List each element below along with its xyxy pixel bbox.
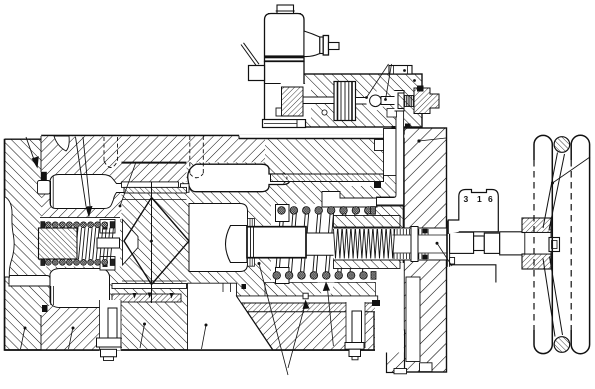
thread teeth	[334, 229, 395, 259]
cone centerline	[151, 182, 153, 303]
top fitting on pilot block	[389, 66, 412, 75]
bracket lower plate	[450, 265, 496, 283]
leader dots bottom-left	[24, 327, 27, 330]
black seal below pilot block	[405, 124, 411, 129]
bore step channel	[384, 129, 397, 176]
central spring chamber	[271, 204, 375, 282]
svg-text:1: 1	[477, 194, 482, 204]
body bore wall line bottom	[40, 315, 42, 350]
seal black top-left	[41, 172, 47, 181]
spring coil lines	[75, 228, 113, 259]
svg-text:3: 3	[464, 194, 469, 204]
manual override lever	[241, 45, 257, 67]
spring seat tab	[97, 238, 120, 248]
threaded rod pilot nose	[306, 233, 334, 255]
seal gland box bottom	[100, 257, 115, 271]
rim section circle top	[554, 137, 570, 153]
main spring wire circles bottom row	[276, 268, 290, 284]
body bore wall line top	[40, 136, 42, 172]
stem end flange lines	[446, 221, 448, 267]
white band above cover plate seal	[345, 181, 385, 187]
main central chamber	[189, 204, 248, 272]
upper-left chamber	[50, 175, 125, 209]
dashed arc at chamber right end	[284, 173, 288, 184]
handwheel hub bottom flange	[522, 254, 551, 269]
solenoid armature	[282, 87, 304, 116]
bottom edge line across notch	[5, 349, 376, 351]
spring wire circles bottom row	[41, 259, 115, 265]
plate arrow with square	[303, 293, 308, 299]
spring guide block	[39, 228, 78, 259]
poppet cone diamond outline	[124, 198, 189, 285]
chamber left wall lines	[50, 181, 52, 206]
drain channel from pilot valve	[377, 109, 404, 206]
pilot block leader lines	[367, 64, 389, 98]
seal black lower-left chamber	[42, 305, 48, 312]
spring cup	[395, 91, 405, 112]
right end cap block	[404, 128, 447, 372]
lower-left chamber	[50, 269, 110, 308]
main valve body	[5, 136, 404, 351]
handwheel leader line	[553, 157, 591, 183]
bore step corner	[375, 140, 384, 151]
long leader to spring (double line)	[76, 137, 87, 206]
port dot in pilot block	[322, 110, 327, 115]
spool link rod	[356, 98, 371, 105]
pilot ball	[370, 95, 382, 107]
lower spoke	[543, 259, 555, 337]
seal gland box top	[100, 220, 115, 234]
left bolt	[108, 308, 117, 338]
right block leader	[417, 139, 420, 142]
lever block	[249, 66, 265, 81]
cover plate (thin hatched)	[271, 174, 384, 182]
solenoid foot	[263, 120, 306, 128]
connector plate 2	[323, 36, 328, 56]
sleeve hatch zone left (opposite direction)	[42, 136, 122, 221]
bottom mounting plate	[241, 303, 374, 350]
central horizontal chamber	[188, 164, 290, 192]
arrow top-left	[26, 137, 35, 161]
flange notch top	[450, 223, 455, 229]
adjusting screw housing	[414, 88, 439, 114]
seal black right of cover plate	[374, 181, 381, 188]
packing rings below rod	[248, 258, 255, 267]
center bolt	[352, 311, 362, 343]
center bolt slot	[346, 302, 365, 348]
main spring wire circles top row	[276, 205, 290, 222]
white gap notch in band	[318, 283, 335, 297]
hatch band below central spring	[265, 283, 376, 296]
stem section 2	[500, 232, 527, 255]
push rod	[303, 97, 334, 104]
solenoid separator band	[265, 55, 305, 58]
right block inner channel	[406, 277, 420, 362]
upper spoke	[543, 153, 558, 229]
left spring cavity	[40, 218, 120, 267]
solenoid lower body	[265, 62, 305, 122]
travel stop bracket	[448, 190, 498, 235]
connector trapezoid	[304, 31, 320, 57]
left poppet pocket	[123, 220, 139, 266]
hidden hole dashed D1	[104, 137, 118, 168]
central white column below	[188, 283, 273, 350]
stem neck	[474, 236, 485, 251]
stem leader dot	[436, 242, 439, 245]
solenoid cap	[277, 5, 294, 14]
step blocks above central spring	[322, 192, 377, 208]
plate top dense band	[241, 303, 378, 312]
packing rings above rod	[248, 219, 255, 227]
svg-text:6: 6	[488, 194, 493, 204]
sleeve hatch zone bottom-left	[42, 306, 123, 350]
seat layer band bottom	[112, 284, 187, 289]
recess-to-chamber white band	[9, 276, 50, 287]
seat dense hatch strip	[124, 187, 187, 193]
spindle rod	[247, 227, 306, 258]
handwheel hub waist	[525, 233, 551, 255]
seat edge lines	[122, 199, 187, 201]
threaded stem band	[334, 228, 447, 261]
locknut washer	[411, 227, 418, 262]
pilot poppet	[381, 97, 397, 105]
armature foot	[276, 108, 282, 116]
white port wedge top-left	[54, 136, 69, 151]
seal dot at chamber corner	[242, 284, 247, 289]
coupling block	[484, 233, 499, 253]
handwheel hub top flange	[522, 218, 551, 233]
top-left column edge step	[3, 134, 41, 138]
solenoid top line	[268, 13, 301, 15]
guide bushing below thread	[334, 259, 401, 269]
seal black on lower plate	[372, 300, 380, 306]
sleeve hatch zone top center	[122, 136, 187, 182]
seat sleeve top thick line	[122, 162, 187, 164]
thread core lines	[393, 234, 447, 236]
white step top right	[377, 197, 405, 206]
left port pocket	[38, 181, 51, 195]
spring leader arrow	[323, 282, 330, 292]
spring guide bushing above thread	[334, 216, 401, 228]
leader line across plate	[258, 262, 261, 265]
fitting leader dot	[403, 69, 406, 72]
spring wire circles top row	[41, 222, 115, 228]
hub center square	[549, 238, 560, 252]
flange notch bottom	[450, 258, 455, 265]
right block lower-left foot	[387, 330, 405, 373]
connector plate 1	[320, 37, 323, 54]
left edge adjuster recess	[5, 197, 15, 278]
top edge step right of x=239	[239, 135, 405, 139]
right block bottom notch	[420, 363, 433, 372]
handwheel inner ring	[534, 135, 552, 353]
leader dot near seat	[119, 205, 122, 208]
pilot spring coil	[405, 96, 416, 107]
thread crest ticks top	[394, 229, 428, 259]
pilot valve block	[299, 74, 422, 127]
seat white strip	[122, 182, 179, 188]
thread seals	[423, 229, 428, 234]
main spring coil lines	[276, 214, 368, 273]
armature pocket	[281, 84, 311, 119]
pilot block corner dot	[413, 79, 416, 82]
hidden hole dashed D2	[190, 136, 204, 178]
gap between plate and right block	[375, 263, 404, 353]
left bolt slot	[100, 300, 122, 351]
stem section 1	[450, 232, 474, 253]
handwheel outer ring	[571, 135, 589, 353]
piston	[226, 226, 248, 263]
pilot spool	[334, 82, 356, 121]
solenoid upper body	[265, 14, 305, 62]
ball pocket halo	[366, 91, 385, 110]
rim section circle bottom	[554, 337, 570, 353]
adjusting screw corner seal	[417, 86, 424, 92]
white strip above plate	[237, 296, 378, 303]
connector pin	[329, 43, 340, 50]
centerline dot	[150, 240, 153, 243]
